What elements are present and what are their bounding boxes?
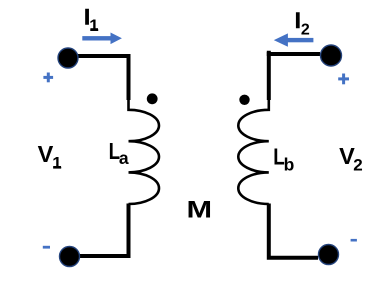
wire bottom-right — [269, 204, 318, 258]
label I2 — [295, 8, 310, 38]
terminal dot top-left — [58, 48, 78, 68]
terminal dot bottom-right — [319, 245, 339, 265]
terminal dot bottom-left — [60, 247, 80, 267]
current arrow I1 — [82, 33, 122, 45]
plus sign left — [43, 73, 53, 83]
svg-text:a: a — [119, 148, 129, 168]
minus sign left — [43, 246, 50, 249]
wire top-left — [74, 56, 129, 100]
svg-text:2: 2 — [301, 21, 310, 38]
svg-text:1: 1 — [52, 154, 61, 173]
inductor Lb coil — [238, 99, 269, 204]
wire bottom-left — [78, 204, 129, 257]
svg-text:M: M — [187, 196, 213, 223]
label V2 — [339, 143, 363, 174]
terminal dot top-right — [321, 45, 342, 66]
wire top-right vertical — [267, 51, 271, 100]
label Lb — [273, 144, 294, 175]
label I1 — [84, 5, 99, 35]
plus sign right — [338, 74, 349, 85]
svg-text:1: 1 — [89, 16, 98, 35]
label V1 — [38, 141, 62, 173]
current arrow I2 — [274, 33, 314, 46]
label La — [109, 138, 129, 168]
minus sign right — [351, 239, 357, 242]
inductor La coil — [129, 99, 160, 204]
polarity dot La — [147, 93, 158, 104]
polarity dot Lb — [239, 95, 249, 105]
svg-text:2: 2 — [353, 156, 362, 175]
wire top-right horizontal — [267, 52, 320, 56]
svg-text:V: V — [38, 141, 54, 167]
svg-text:b: b — [284, 155, 295, 175]
